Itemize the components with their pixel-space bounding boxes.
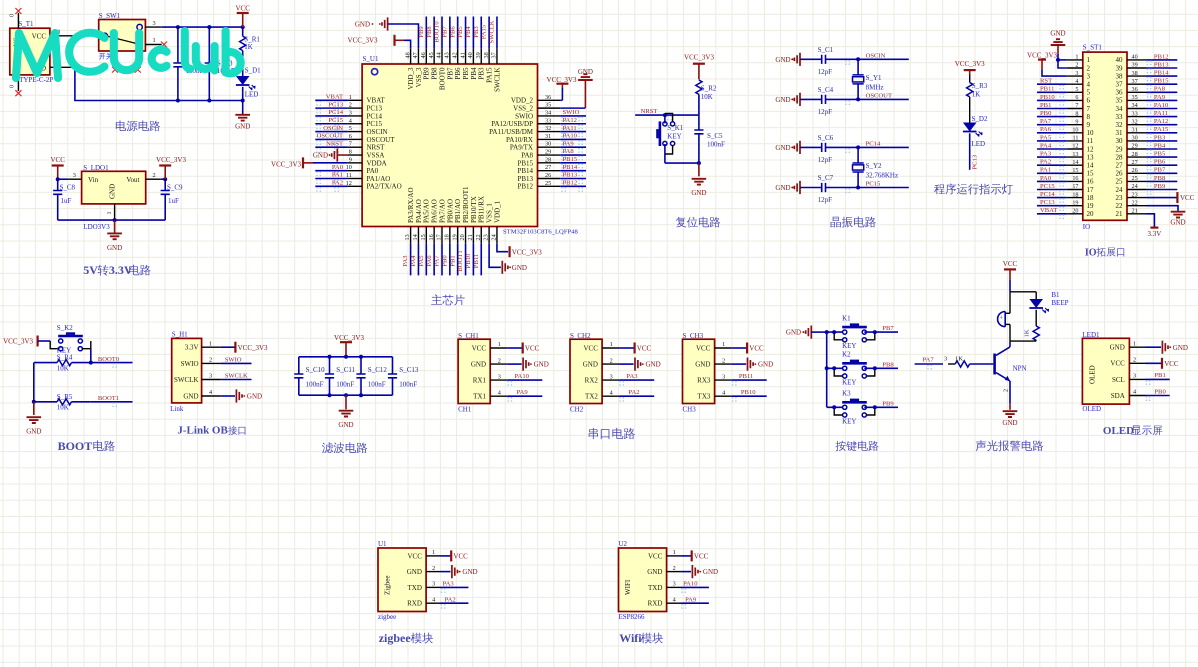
svg-text:PB9: PB9: [423, 67, 431, 80]
svg-text:PB2/BOOT1: PB2/BOOT1: [462, 186, 470, 223]
svg-text:BOOT1: BOOT1: [98, 395, 119, 402]
svg-text:PA10: PA10: [515, 373, 530, 380]
svg-text:PA0: PA0: [1040, 175, 1052, 182]
svg-text:6: 6: [349, 133, 352, 140]
svg-text:PB10: PB10: [741, 389, 756, 396]
svg-text:SWIO: SWIO: [181, 360, 199, 368]
svg-text:RST: RST: [1040, 78, 1052, 85]
svg-text:PB8: PB8: [882, 361, 894, 368]
svg-text:PA11/USB/DM: PA11/USB/DM: [489, 128, 534, 136]
svg-text:Link: Link: [170, 405, 184, 413]
svg-text:7: 7: [1075, 102, 1078, 109]
svg-text:PA11: PA11: [563, 125, 577, 132]
svg-text:S_CH3: S_CH3: [683, 332, 704, 340]
svg-text:BEEP: BEEP: [1051, 299, 1068, 307]
svg-text:5: 5: [1075, 86, 1078, 93]
svg-text:18: 18: [443, 234, 450, 240]
svg-text:PA7: PA7: [434, 255, 441, 267]
svg-text:1: 1: [432, 549, 435, 556]
svg-text:1: 1: [349, 94, 352, 101]
svg-text:LED: LED: [245, 91, 259, 99]
svg-text:PA9: PA9: [1154, 94, 1166, 101]
svg-text:34: 34: [1116, 105, 1124, 113]
svg-text:OSCOUT: OSCOUT: [866, 93, 892, 100]
svg-text:PB8: PB8: [426, 26, 433, 38]
svg-text:3: 3: [73, 172, 76, 179]
svg-text:16: 16: [1087, 178, 1095, 186]
svg-text:23: 23: [483, 234, 490, 240]
svg-text:29: 29: [1132, 143, 1138, 150]
svg-text:VCC: VCC: [648, 552, 663, 560]
svg-text:VCC: VCC: [235, 4, 250, 12]
svg-text:26: 26: [545, 172, 551, 179]
svg-text:14: 14: [1072, 159, 1078, 166]
svg-text:S_ST1: S_ST1: [1083, 44, 1103, 52]
svg-text:33: 33: [545, 117, 551, 124]
svg-text:40: 40: [467, 52, 474, 58]
svg-text:0: 0: [9, 14, 16, 17]
svg-text:39: 39: [475, 52, 482, 58]
svg-text:VCC: VCC: [453, 553, 468, 561]
svg-text:1: 1: [1087, 56, 1091, 64]
svg-text:VCC: VCC: [1110, 360, 1125, 368]
svg-text:2: 2: [498, 357, 501, 364]
svg-text:32.768KHz: 32.768KHz: [866, 172, 898, 180]
svg-text:1K: 1K: [1024, 329, 1031, 337]
svg-text:KEY: KEY: [842, 417, 856, 425]
svg-text:PB15: PB15: [563, 156, 578, 163]
svg-text:GND: GND: [26, 428, 41, 436]
svg-text:PB0: PB0: [1154, 388, 1166, 395]
svg-text:12: 12: [1072, 143, 1078, 150]
svg-text:10K: 10K: [701, 93, 713, 101]
svg-text:TX3: TX3: [698, 393, 711, 401]
svg-text:U2: U2: [619, 540, 628, 548]
svg-text:RXD: RXD: [407, 600, 422, 608]
svg-text:1uF: 1uF: [168, 197, 179, 205]
svg-text:PA5/AO: PA5/AO: [423, 199, 431, 223]
svg-text:3: 3: [1087, 72, 1091, 80]
svg-text:32: 32: [1116, 121, 1124, 129]
svg-text:37: 37: [491, 52, 498, 58]
svg-text:18: 18: [1087, 194, 1095, 202]
svg-text:2: 2: [610, 357, 613, 364]
svg-text:PB7: PB7: [1154, 167, 1166, 174]
svg-text:GND: GND: [1002, 419, 1017, 427]
svg-text:S_K2: S_K2: [57, 324, 73, 332]
svg-text:40: 40: [1132, 54, 1138, 61]
svg-text:PA1: PA1: [1040, 167, 1051, 174]
svg-text:GND: GND: [775, 184, 790, 192]
svg-text:PB11: PB11: [739, 373, 753, 380]
svg-text:S_C8: S_C8: [60, 183, 76, 191]
svg-text:S_CH1: S_CH1: [458, 332, 479, 340]
svg-text:45: 45: [428, 52, 435, 58]
svg-text:4: 4: [432, 596, 435, 603]
svg-text:100nF: 100nF: [306, 381, 324, 389]
svg-text:27: 27: [1132, 159, 1138, 166]
svg-text:PB0: PB0: [1040, 110, 1052, 117]
svg-text:VCC_3V3: VCC_3V3: [1027, 51, 1057, 59]
svg-text:S_R4: S_R4: [57, 354, 73, 362]
svg-text:PA2/TX/AO: PA2/TX/AO: [367, 183, 402, 191]
svg-text:14: 14: [1087, 162, 1095, 170]
svg-text:NPN: NPN: [1013, 365, 1027, 373]
svg-text:PA1/AO: PA1/AO: [367, 175, 391, 183]
svg-text:S_U1: S_U1: [363, 55, 379, 63]
svg-text:38: 38: [483, 52, 490, 58]
svg-text:4: 4: [673, 596, 676, 603]
svg-text:VBAT: VBAT: [326, 94, 343, 101]
svg-text:PA8: PA8: [521, 151, 533, 159]
svg-text:PB7: PB7: [446, 67, 454, 80]
svg-text:3: 3: [209, 373, 212, 380]
svg-text:CH2: CH2: [570, 405, 584, 413]
svg-text:44: 44: [436, 52, 443, 58]
svg-text:6: 6: [1087, 97, 1091, 105]
svg-text:16: 16: [1072, 175, 1078, 182]
svg-text:PA7: PA7: [1040, 118, 1052, 125]
svg-text:OSCIN: OSCIN: [323, 125, 343, 132]
svg-text:ESP8266: ESP8266: [619, 613, 646, 621]
svg-text:GND: GND: [775, 144, 790, 152]
svg-text:PA0: PA0: [332, 164, 344, 171]
svg-text:PB10: PB10: [1040, 94, 1055, 101]
svg-text:12pF: 12pF: [818, 196, 833, 204]
svg-text:PA9: PA9: [563, 140, 575, 147]
svg-text:31: 31: [1132, 127, 1138, 134]
svg-text:SWIO: SWIO: [225, 357, 242, 364]
svg-text:1uF: 1uF: [61, 197, 72, 205]
svg-text:3: 3: [498, 373, 501, 380]
svg-text:PB12: PB12: [1154, 53, 1169, 60]
svg-text:PA7/AO: PA7/AO: [438, 199, 446, 223]
svg-text:IO: IO: [1085, 247, 1097, 258]
svg-text:OLED: OLED: [1089, 365, 1097, 384]
svg-text:GND: GND: [355, 21, 370, 29]
svg-text:PB6: PB6: [449, 26, 456, 38]
svg-text:PC15: PC15: [866, 181, 881, 188]
svg-text:9: 9: [1087, 121, 1091, 129]
svg-text:21: 21: [467, 234, 474, 240]
svg-text:42: 42: [451, 52, 458, 58]
svg-text:19: 19: [451, 234, 458, 240]
svg-text:Vin: Vin: [88, 176, 99, 184]
svg-text:27: 27: [1116, 162, 1124, 170]
svg-text:PC14: PC14: [367, 112, 383, 120]
svg-text:PB5: PB5: [462, 67, 470, 80]
svg-text:PC14: PC14: [866, 141, 881, 148]
svg-text:GND: GND: [462, 568, 477, 576]
svg-text:PB13: PB13: [517, 175, 533, 183]
svg-text:8: 8: [1087, 113, 1091, 121]
svg-text:38: 38: [1116, 72, 1124, 80]
svg-text:34: 34: [545, 109, 551, 116]
svg-text:13: 13: [1087, 153, 1095, 161]
svg-text:36: 36: [1116, 89, 1124, 97]
svg-text:KEY: KEY: [842, 342, 856, 350]
svg-text:PB0: PB0: [441, 255, 448, 267]
svg-text:25: 25: [545, 180, 551, 187]
svg-text:PA15: PA15: [481, 24, 488, 39]
svg-text:4: 4: [1087, 81, 1091, 89]
svg-text:GND: GND: [1173, 344, 1188, 352]
svg-text:26: 26: [1116, 170, 1124, 178]
svg-text:VCC: VCC: [637, 345, 652, 353]
svg-text:20: 20: [1087, 210, 1095, 218]
svg-text:PA9: PA9: [517, 389, 529, 396]
svg-text:6: 6: [1075, 94, 1078, 101]
svg-text:PA6: PA6: [426, 255, 433, 267]
svg-text:S_LDO1: S_LDO1: [83, 164, 109, 172]
svg-text:S_SW1: S_SW1: [99, 12, 121, 20]
svg-text:GND: GND: [1110, 344, 1125, 352]
svg-text:PA9: PA9: [685, 596, 697, 603]
svg-text:VDD_2: VDD_2: [511, 97, 534, 105]
svg-text:33: 33: [1132, 110, 1138, 117]
svg-text:3: 3: [432, 581, 435, 588]
svg-text:zigbee: zigbee: [379, 631, 412, 645]
svg-text:VCC: VCC: [50, 156, 65, 164]
svg-text:GND: GND: [183, 392, 198, 400]
svg-text:PA2: PA2: [445, 596, 456, 603]
svg-text:15: 15: [420, 234, 427, 240]
svg-text:14: 14: [412, 234, 419, 240]
svg-text:OSCIN: OSCIN: [367, 128, 388, 136]
svg-text:S_C4: S_C4: [818, 86, 834, 94]
svg-text:PA2: PA2: [628, 389, 639, 396]
svg-text:RX1: RX1: [473, 377, 487, 385]
svg-text:PB4: PB4: [465, 26, 472, 38]
svg-text:PB11/RX: PB11/RX: [478, 196, 486, 223]
svg-text:PC14: PC14: [328, 109, 343, 116]
svg-text:VCC_3V3: VCC_3V3: [271, 160, 301, 168]
svg-text:10: 10: [1072, 127, 1078, 134]
svg-text:GND: GND: [583, 361, 598, 369]
svg-text:PB15: PB15: [517, 159, 533, 167]
svg-text:PA0: PA0: [367, 167, 379, 175]
svg-text:S_C1: S_C1: [818, 46, 834, 54]
svg-text:Vout: Vout: [126, 176, 139, 184]
svg-text:LED: LED: [972, 140, 986, 148]
svg-text:PA11: PA11: [1154, 110, 1168, 117]
svg-text:PA10: PA10: [683, 581, 698, 588]
svg-text:4: 4: [1075, 78, 1078, 85]
svg-text:BOOT1: BOOT1: [457, 250, 464, 271]
svg-text:PA5: PA5: [418, 255, 425, 267]
svg-text:PA7: PA7: [923, 356, 935, 363]
svg-text:GND: GND: [247, 392, 262, 400]
svg-text:5: 5: [1087, 89, 1091, 97]
svg-text:PB1/AO: PB1/AO: [454, 199, 462, 223]
svg-text:S_R3: S_R3: [972, 82, 988, 90]
svg-text:PB10/TX: PB10/TX: [470, 196, 478, 223]
svg-text:38: 38: [1132, 70, 1138, 77]
svg-text:100nF: 100nF: [368, 381, 386, 389]
svg-text:GND: GND: [775, 56, 790, 64]
svg-text:24: 24: [491, 234, 498, 240]
svg-text:OLED: OLED: [1082, 405, 1101, 413]
svg-text:VCC: VCC: [1164, 360, 1179, 368]
svg-text:7: 7: [349, 141, 352, 148]
svg-text:GND: GND: [647, 568, 662, 576]
svg-text:PB9: PB9: [1154, 183, 1166, 190]
svg-text:19: 19: [1087, 202, 1095, 210]
svg-text:PA3: PA3: [402, 255, 409, 267]
svg-text:S_C6: S_C6: [818, 134, 834, 142]
svg-text:GND: GND: [1050, 29, 1065, 37]
svg-text:PA3: PA3: [443, 581, 455, 588]
svg-text:S_R2: S_R2: [701, 85, 717, 93]
svg-text:PB14: PB14: [563, 164, 578, 171]
svg-text:VDD_1: VDD_1: [493, 200, 501, 223]
svg-text:12pF: 12pF: [818, 156, 833, 164]
svg-text:4: 4: [209, 389, 212, 396]
svg-text:PB5: PB5: [1154, 151, 1166, 158]
svg-text:36: 36: [1132, 86, 1138, 93]
svg-text:S_C11: S_C11: [336, 366, 355, 374]
svg-text:35: 35: [1116, 97, 1124, 105]
svg-text:PB8: PB8: [431, 67, 439, 80]
svg-text:1: 1: [1133, 340, 1136, 347]
svg-text:31: 31: [545, 133, 551, 140]
svg-text:GND: GND: [646, 361, 661, 369]
svg-text:47: 47: [412, 52, 419, 58]
svg-text:LED1: LED1: [1082, 331, 1100, 339]
svg-text:PB14: PB14: [1154, 70, 1169, 77]
svg-text:4: 4: [722, 389, 725, 396]
svg-text:20: 20: [1072, 208, 1078, 215]
svg-text:PC14: PC14: [1040, 191, 1055, 198]
svg-text:K1: K1: [842, 315, 851, 323]
svg-text:28: 28: [1132, 151, 1138, 158]
svg-text:TYPE-C-2P: TYPE-C-2P: [19, 76, 53, 84]
svg-text:30: 30: [1116, 137, 1124, 145]
svg-text:22: 22: [475, 234, 482, 240]
svg-text:VCC_3V3: VCC_3V3: [334, 334, 364, 342]
svg-text:S_H1: S_H1: [172, 331, 188, 339]
svg-text:GND: GND: [512, 264, 527, 272]
svg-text:8: 8: [349, 149, 352, 156]
svg-text:PA15: PA15: [486, 67, 494, 83]
svg-text:S_R5: S_R5: [57, 393, 73, 401]
svg-text:BOOT0: BOOT0: [98, 356, 120, 363]
svg-text:22: 22: [1116, 202, 1124, 210]
svg-text:IO: IO: [1083, 223, 1090, 231]
svg-text:13: 13: [1072, 151, 1078, 158]
svg-text:8MHz: 8MHz: [866, 84, 884, 92]
svg-text:VBAT: VBAT: [1040, 207, 1057, 214]
svg-text:35: 35: [1132, 94, 1138, 101]
svg-text:GND: GND: [107, 244, 122, 252]
svg-text:4: 4: [498, 389, 501, 396]
svg-text:PB12: PB12: [563, 180, 578, 187]
svg-text:K3: K3: [842, 390, 851, 398]
svg-text:21: 21: [1116, 210, 1124, 218]
svg-text:VCC: VCC: [1180, 194, 1195, 202]
svg-text:1: 1: [673, 549, 676, 556]
svg-text:BOOT0: BOOT0: [438, 67, 446, 90]
svg-text:NRST: NRST: [367, 144, 386, 152]
svg-text:RXD: RXD: [648, 600, 663, 608]
svg-text:KEY: KEY: [842, 378, 856, 386]
svg-text:PB11: PB11: [473, 254, 480, 268]
svg-text:10K: 10K: [57, 365, 69, 373]
svg-text:23: 23: [1116, 194, 1124, 202]
svg-text:16: 16: [428, 234, 435, 240]
svg-text:1K: 1K: [972, 91, 981, 99]
svg-text:SWCLK: SWCLK: [493, 68, 501, 93]
svg-text:PB4: PB4: [470, 67, 478, 80]
svg-text:PB13: PB13: [563, 172, 578, 179]
svg-text:25: 25: [1132, 175, 1138, 182]
svg-text:PB7: PB7: [882, 325, 894, 332]
svg-text:3: 3: [349, 109, 352, 116]
svg-text:NRST: NRST: [326, 140, 343, 147]
svg-text:VCC: VCC: [32, 32, 47, 40]
svg-text:GND: GND: [109, 184, 117, 199]
svg-text:32: 32: [545, 125, 551, 132]
svg-text:PB13: PB13: [1154, 61, 1169, 68]
svg-text:PC13: PC13: [367, 105, 383, 113]
svg-text:100nF: 100nF: [399, 381, 417, 389]
svg-text:VCC: VCC: [407, 552, 422, 560]
svg-text:31: 31: [1116, 129, 1124, 137]
svg-text:PA3: PA3: [626, 373, 638, 380]
svg-text:2: 2: [1075, 62, 1078, 69]
svg-text:TXD: TXD: [648, 584, 662, 592]
svg-text:GND: GND: [313, 151, 328, 159]
svg-text:PC15: PC15: [367, 120, 383, 128]
svg-text:1: 1: [106, 211, 113, 214]
svg-text:PB3: PB3: [478, 67, 486, 80]
svg-text:2: 2: [349, 102, 352, 109]
svg-text:9: 9: [1075, 118, 1078, 125]
svg-text:SWCLK: SWCLK: [174, 376, 199, 384]
svg-text:30: 30: [545, 141, 551, 148]
svg-text:PA12: PA12: [1154, 118, 1168, 125]
svg-text:VCC: VCC: [694, 553, 709, 561]
svg-text:12pF: 12pF: [818, 108, 833, 116]
svg-text:S_T1: S_T1: [18, 20, 34, 28]
svg-text:PB3: PB3: [1154, 134, 1166, 141]
svg-text:17: 17: [1087, 186, 1095, 194]
svg-text:PA5: PA5: [1040, 134, 1052, 141]
svg-text:S_C7: S_C7: [818, 174, 834, 182]
svg-text:SWIO: SWIO: [515, 112, 533, 120]
svg-text:2: 2: [153, 172, 156, 179]
svg-text:23: 23: [1132, 191, 1138, 198]
svg-text:PA9/TX: PA9/TX: [510, 144, 533, 152]
svg-text:PA3: PA3: [1040, 151, 1052, 158]
svg-text:36: 36: [545, 94, 551, 101]
svg-text:1: 1: [498, 341, 501, 348]
svg-text:9: 9: [349, 156, 352, 163]
svg-text:SDA: SDA: [1111, 392, 1125, 400]
svg-text:1K: 1K: [955, 356, 963, 363]
svg-text:PA4/AO: PA4/AO: [415, 199, 423, 223]
svg-text:PB9: PB9: [882, 400, 894, 407]
svg-text:BOOT: BOOT: [58, 439, 93, 453]
svg-text:VCC: VCC: [472, 344, 487, 352]
svg-text:20: 20: [459, 234, 466, 240]
svg-text:VCC_3V3: VCC_3V3: [684, 54, 714, 62]
svg-text:34: 34: [1132, 102, 1138, 109]
svg-text:PB8: PB8: [1154, 175, 1166, 182]
svg-text:GND: GND: [471, 361, 486, 369]
svg-text:STM32F103C8T6_LQFP48: STM32F103C8T6_LQFP48: [503, 229, 578, 236]
svg-text:GND: GND: [338, 421, 353, 429]
